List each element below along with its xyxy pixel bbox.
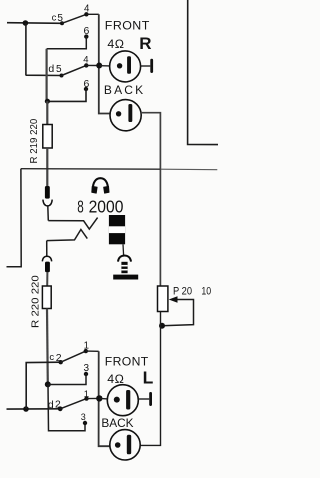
switch d5 arm [62,65,87,75]
switch c2 terminal 3 [84,372,88,376]
wire c5 t4 to rail A [86,13,98,15]
jack lower cup contact [42,256,51,261]
resistor R219 body [43,125,52,149]
svg-text:5: 5 [57,13,63,24]
svg-text:1: 1 [84,389,89,400]
svg-text:R 219 220: R 219 220 [28,119,40,164]
wire node down to d2 t3 [48,384,85,430]
svg-text:d: d [48,63,54,75]
wire BACK R right lead to rail C [141,113,160,286]
terminal bar FRONT R [150,59,153,73]
rail C lower to BACK L [140,312,161,446]
jack socket panel bar [113,275,138,280]
switch c2 arm [61,351,86,362]
svg-text:4: 4 [83,55,88,66]
switch d2 common contact [58,406,63,411]
wire lower plug to R220 [46,272,48,286]
speaker BACK R inner dot [116,111,121,116]
SECTION: right speakers and rails [7,0,219,460]
wire c2 t3 to node [48,374,86,385]
svg-text:L: L [143,367,154,387]
wire junction down to d5 common [26,23,62,76]
svg-text:6: 6 [84,25,90,37]
speaker BACK R circle [110,100,141,131]
jack break contact upper spring [48,218,97,230]
svg-text:BACK: BACK [104,83,145,97]
svg-text:3: 3 [84,363,90,374]
wire FRONT L right lead [138,398,149,400]
switch c2 common contact [59,360,63,364]
svg-text:6: 6 [84,78,90,90]
node junction at x26 [23,406,29,412]
speaker FRONT L circle [107,385,138,416]
speaker FRONT R circle [110,51,141,82]
SECTION: left resistors chain [42,101,85,431]
svg-text:5: 5 [56,64,62,75]
svg-text:4Ω: 4Ω [107,372,124,386]
node pot wiper to rail C [159,323,165,329]
wire junction up to c2 common [26,362,61,409]
speaker FRONT R inner bar [127,56,131,74]
wire left drop of long net [7,169,22,267]
long horizontal net wire [21,168,161,171]
switch c5 terminal 6 [84,34,88,38]
svg-text:R 220 220: R 220 220 [30,275,42,328]
wire d5 t6 down-left to node [47,89,86,101]
svg-text:10: 10 [201,286,211,298]
jack tip cup contact [43,200,52,206]
svg-text:3: 3 [81,412,86,422]
switch d5 common contact [60,74,64,78]
rail B vertical c2t1 down to BACK L [99,351,111,446]
node rail B d2 t1 / FRONT L [96,395,102,401]
switch c2 terminal 1 [84,349,88,353]
jack ring contact bar (lower plug) [45,262,50,273]
wire plug to socket [122,244,125,255]
speaker BACK L circle [110,430,140,460]
svg-text:BACK: BACK [101,416,133,430]
switch d2 arm [60,399,86,409]
svg-text:2000: 2000 [89,197,124,217]
headphones icon right earpad [104,186,110,193]
switch d2 terminal 1 [84,396,88,400]
svg-text:R: R [139,34,151,53]
node R219 top junction [45,99,50,104]
speaker BACK L inner dot [115,442,121,448]
headphones icon headband [93,178,108,189]
wire d5 t4 to rail A node [86,64,99,66]
wire FRONT R right lead [141,65,151,67]
svg-text:4Ω: 4Ω [107,37,124,51]
wire c2 t1 to rail B [86,350,99,352]
svg-text:2: 2 [56,352,62,364]
headphone plug ring band [109,226,125,233]
speaker BACK L inner bar [127,435,131,455]
resistor R220 body [42,286,51,309]
wire R220 top from lower cup [46,241,48,257]
node junction at x25 [23,20,29,26]
rail D top right vertical [188,0,218,145]
wire d2 t1 to rail B node [87,397,100,399]
svg-text:2: 2 [55,400,61,411]
svg-text:4: 4 [84,4,90,15]
wire input to switch c5 [7,22,62,25]
wire FRONT R left lead [99,65,110,67]
switch d5 terminal 4 [84,63,88,67]
wire c5 t6 down-left [47,37,87,49]
wire cup to break contact [47,206,50,221]
svg-text:FRONT: FRONT [105,18,150,32]
SECTION: top-left switches [7,12,99,104]
rail A vertical c5t4 down to BACK R [99,14,110,113]
speaker FRONT L inner dot [114,397,120,403]
jack socket arc [118,256,131,262]
headphone plug body [109,215,125,244]
wire node to resistor R219 [46,101,48,124]
wire R219 to jack tip contact [46,148,48,187]
SECTION: texts [28,4,211,430]
jack tip contact bar (upper plug) [45,186,50,199]
speaker BACK R inner bar [128,104,132,122]
headphones icon left earpad [92,186,98,193]
node rail A d5 t4 / FRONT R [96,63,102,69]
node c2 t3 junction [45,381,51,387]
SECTION: center symbols [92,178,139,279]
wire input to switch d2 [7,408,61,410]
svg-text:1: 1 [84,340,89,351]
switch d2 terminal 3 [83,421,87,425]
speaker FRONT L inner bar [126,390,130,410]
switch c5 terminal 4 [84,12,88,16]
svg-text:c: c [52,13,57,24]
svg-text:c: c [49,352,54,363]
svg-text:d: d [48,399,54,411]
potentiometer P20 body [158,286,168,312]
terminal bar FRONT L [149,392,152,406]
switch c5 common contact [60,21,64,25]
svg-text:P 20: P 20 [173,286,192,298]
potentiometer wiper arrow [162,300,194,326]
jack break contact lower spring [47,230,88,241]
SECTION: jack contacts [47,218,98,241]
wire FRONT L left lead [99,397,108,400]
switch c5 arm [62,14,86,23]
speaker FRONT R inner dot [117,63,122,68]
SECTION: bottom-left switches [7,349,100,425]
svg-text:8: 8 [77,197,84,217]
jack socket plug shaft striped [121,262,127,273]
wire R220 to node c2t3 [46,309,49,385]
switch d5 terminal 6 [84,87,88,91]
